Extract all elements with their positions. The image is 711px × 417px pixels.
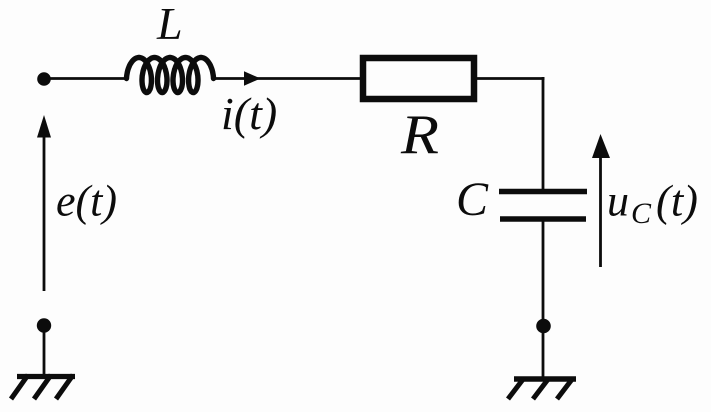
node (right bottom junction)	[536, 319, 551, 334]
voltage arrow e(t)	[43, 135, 46, 291]
svg-text:R: R	[400, 104, 439, 166]
svg-text:L: L	[156, 0, 183, 49]
resistor R	[363, 58, 474, 99]
capacitor C top plate	[499, 189, 587, 195]
svg-text:C: C	[631, 197, 652, 230]
current arrow i(t)	[244, 71, 261, 86]
svg-text:i(t): i(t)	[221, 88, 277, 139]
node (left bottom terminal)	[37, 318, 51, 332]
inductor L	[127, 58, 214, 93]
voltage arrow u_C(t)	[599, 155, 602, 267]
svg-text:(t): (t)	[656, 177, 698, 226]
wire	[542, 222, 545, 378]
capacitor C bottom plate	[500, 216, 586, 222]
wire	[213, 77, 362, 80]
svg-text:C: C	[456, 173, 489, 226]
wire	[44, 77, 127, 80]
ground (right)	[514, 376, 576, 382]
svg-text:e(t): e(t)	[56, 177, 117, 226]
svg-text:u: u	[607, 177, 629, 226]
wire	[477, 77, 545, 80]
wire	[542, 77, 545, 189]
node A (top-left terminal)	[37, 72, 51, 86]
ground (left)	[17, 374, 75, 379]
wire	[43, 327, 46, 374]
